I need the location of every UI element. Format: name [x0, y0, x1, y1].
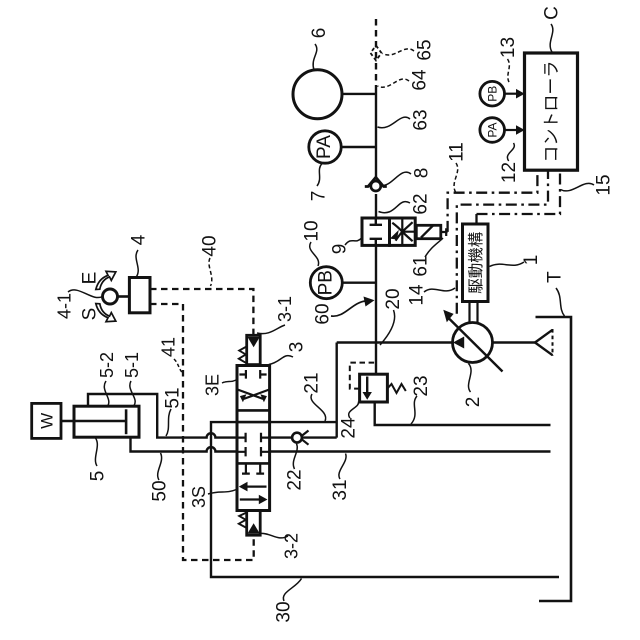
- svg-text:5-1: 5-1: [122, 352, 142, 378]
- svg-text:23: 23: [411, 375, 432, 396]
- label 65: [383, 39, 436, 60]
- svg-text:6: 6: [309, 28, 330, 39]
- label 15: [561, 174, 615, 195]
- wire 60 main line (check to valve9): [375, 194, 377, 218]
- label 23: [411, 375, 432, 424]
- valve 9 position box closed: [362, 218, 390, 245]
- svg-text:51: 51: [163, 387, 184, 408]
- label 5-1: [122, 352, 142, 406]
- label 6: [309, 28, 330, 70]
- label 1: [490, 255, 543, 267]
- signal line 14 pump to controller: [457, 171, 548, 314]
- label 62: [379, 193, 432, 214]
- label 51: [163, 387, 184, 436]
- gauge PB (10): [310, 267, 376, 299]
- svg-text:31: 31: [330, 479, 351, 500]
- pump 2: [443, 310, 502, 372]
- wire 20 main line lower: [375, 246, 377, 375]
- svg-text:14: 14: [407, 284, 428, 306]
- svg-text:9: 9: [330, 244, 351, 255]
- pilot device 4: [96, 271, 150, 321]
- svg-text:3S: 3S: [189, 486, 209, 508]
- tank T outline: [536, 317, 572, 601]
- svg-text:5-2: 5-2: [97, 352, 117, 378]
- relief valve 24: [350, 363, 406, 402]
- svg-text:10: 10: [302, 220, 323, 241]
- label 2: [463, 364, 484, 408]
- drive mechanism box 1: [463, 224, 489, 302]
- svg-text:63: 63: [411, 109, 432, 130]
- wire 23: [375, 402, 551, 425]
- solenoid of valve 9: [416, 225, 447, 238]
- svg-text:41: 41: [159, 337, 179, 357]
- svg-text:PB: PB: [486, 86, 500, 102]
- svg-text:3-1: 3-1: [275, 296, 295, 322]
- label 60 with arrow: [313, 297, 375, 325]
- valve 9 position box flow: [390, 218, 416, 245]
- label 41: [159, 337, 184, 374]
- wire 64 dashed upper extension: [375, 19, 377, 88]
- label 64: [378, 69, 431, 91]
- label 30: [274, 579, 302, 623]
- svg-text:PB: PB: [315, 270, 336, 295]
- svg-text:1: 1: [521, 255, 542, 266]
- svg-text:12: 12: [499, 162, 520, 183]
- svg-text:S: S: [80, 308, 101, 321]
- svg-text:5: 5: [88, 471, 109, 482]
- label 50: [150, 453, 171, 502]
- svg-text:65: 65: [415, 39, 436, 60]
- label 3S: [189, 486, 236, 508]
- svg-text:PA: PA: [314, 135, 335, 159]
- svg-text:3: 3: [287, 342, 308, 353]
- pressure sensor PB (13): [480, 81, 525, 106]
- label 24: [339, 402, 360, 439]
- label T: [545, 271, 566, 316]
- label 5: [88, 438, 109, 481]
- label 5-2: [97, 352, 117, 406]
- svg-text:W: W: [37, 413, 56, 429]
- svg-text:64: 64: [410, 69, 431, 91]
- shutoff marker 65: [371, 46, 382, 61]
- label 3-1: [257, 296, 295, 334]
- svg-text:60: 60: [313, 303, 334, 324]
- dashed pilot line 40 to 3-1: [150, 289, 253, 334]
- label 61: [411, 238, 444, 277]
- accumulator 6: [293, 70, 376, 119]
- svg-text:61: 61: [411, 255, 432, 276]
- wire 51: [88, 394, 237, 438]
- suction strainer triangle: [493, 329, 553, 356]
- label 22: [285, 444, 306, 491]
- wire 63 main line upper: [375, 88, 377, 177]
- label 4-1: [55, 290, 103, 319]
- svg-text:8: 8: [412, 168, 433, 179]
- wire 31: [270, 450, 551, 452]
- svg-text:50: 50: [150, 480, 171, 501]
- svg-text:PA: PA: [486, 122, 500, 137]
- wire 30: [211, 422, 559, 577]
- valve 3 pilot cap 3-2: [239, 510, 260, 535]
- workload W box: [32, 403, 61, 438]
- signal line 15 drive mech to controller: [477, 171, 561, 225]
- valve 3 pilot cap 3-1: [239, 335, 260, 364]
- svg-text:T: T: [545, 271, 566, 283]
- label 21: [302, 372, 326, 421]
- label 63: [378, 109, 432, 130]
- svg-text:20: 20: [383, 288, 404, 309]
- label 3-2: [260, 533, 302, 559]
- check valve 8: [365, 177, 387, 191]
- controller C box: [525, 53, 578, 170]
- label C: [542, 6, 563, 52]
- cylinder 5: [61, 406, 139, 437]
- label 11: [447, 142, 468, 192]
- label 20: [380, 288, 404, 345]
- svg-text:13: 13: [498, 37, 519, 58]
- svg-text:4-1: 4-1: [55, 293, 75, 319]
- svg-text:62: 62: [411, 193, 432, 214]
- svg-text:21: 21: [302, 372, 323, 393]
- svg-text:E: E: [80, 272, 101, 285]
- dashed pilot line 41 to 3-2: [150, 304, 254, 560]
- label 9: [330, 238, 362, 254]
- wire feed to valve3 vertical: [336, 343, 338, 438]
- signal line 61 valve9 to controller: [448, 171, 538, 232]
- svg-text:22: 22: [285, 469, 306, 490]
- wire pump discharge horizontal: [337, 341, 453, 343]
- label 4: [129, 234, 150, 276]
- wire 50: [131, 437, 238, 451]
- svg-text:40: 40: [200, 235, 221, 256]
- wire 22 with check valve 22: [270, 431, 337, 445]
- svg-text:C: C: [542, 6, 563, 20]
- label 3E: [203, 374, 237, 396]
- valve 3E section symbols: [238, 370, 269, 402]
- valve 3S section symbols: [239, 463, 268, 504]
- svg-text:30: 30: [274, 601, 295, 622]
- label 40: [200, 235, 221, 286]
- svg-text:コントローラ: コントローラ: [542, 61, 561, 163]
- valve 3 body: [237, 366, 270, 511]
- label 7: [309, 164, 330, 202]
- svg-text:24: 24: [339, 417, 360, 439]
- svg-text:3E: 3E: [203, 374, 223, 396]
- svg-text:7: 7: [309, 191, 330, 202]
- gauge PA (7): [309, 131, 376, 163]
- label 10: [302, 220, 323, 266]
- svg-text:15: 15: [594, 174, 615, 195]
- label 13: [498, 37, 519, 84]
- pressure sensor PA (12): [480, 118, 525, 143]
- label 8: [382, 168, 433, 186]
- svg-text:4: 4: [129, 234, 150, 245]
- wire 21: [270, 421, 337, 423]
- valve 3 neutral section symbols: [237, 433, 270, 457]
- label 14: [407, 284, 456, 306]
- svg-text:2: 2: [463, 397, 484, 408]
- label 3: [269, 342, 308, 365]
- svg-text:11: 11: [447, 142, 468, 162]
- svg-text:駆動機構: 駆動機構: [467, 231, 485, 294]
- label 12: [499, 143, 520, 183]
- drive shaft: [470, 302, 478, 324]
- label 31: [330, 454, 351, 501]
